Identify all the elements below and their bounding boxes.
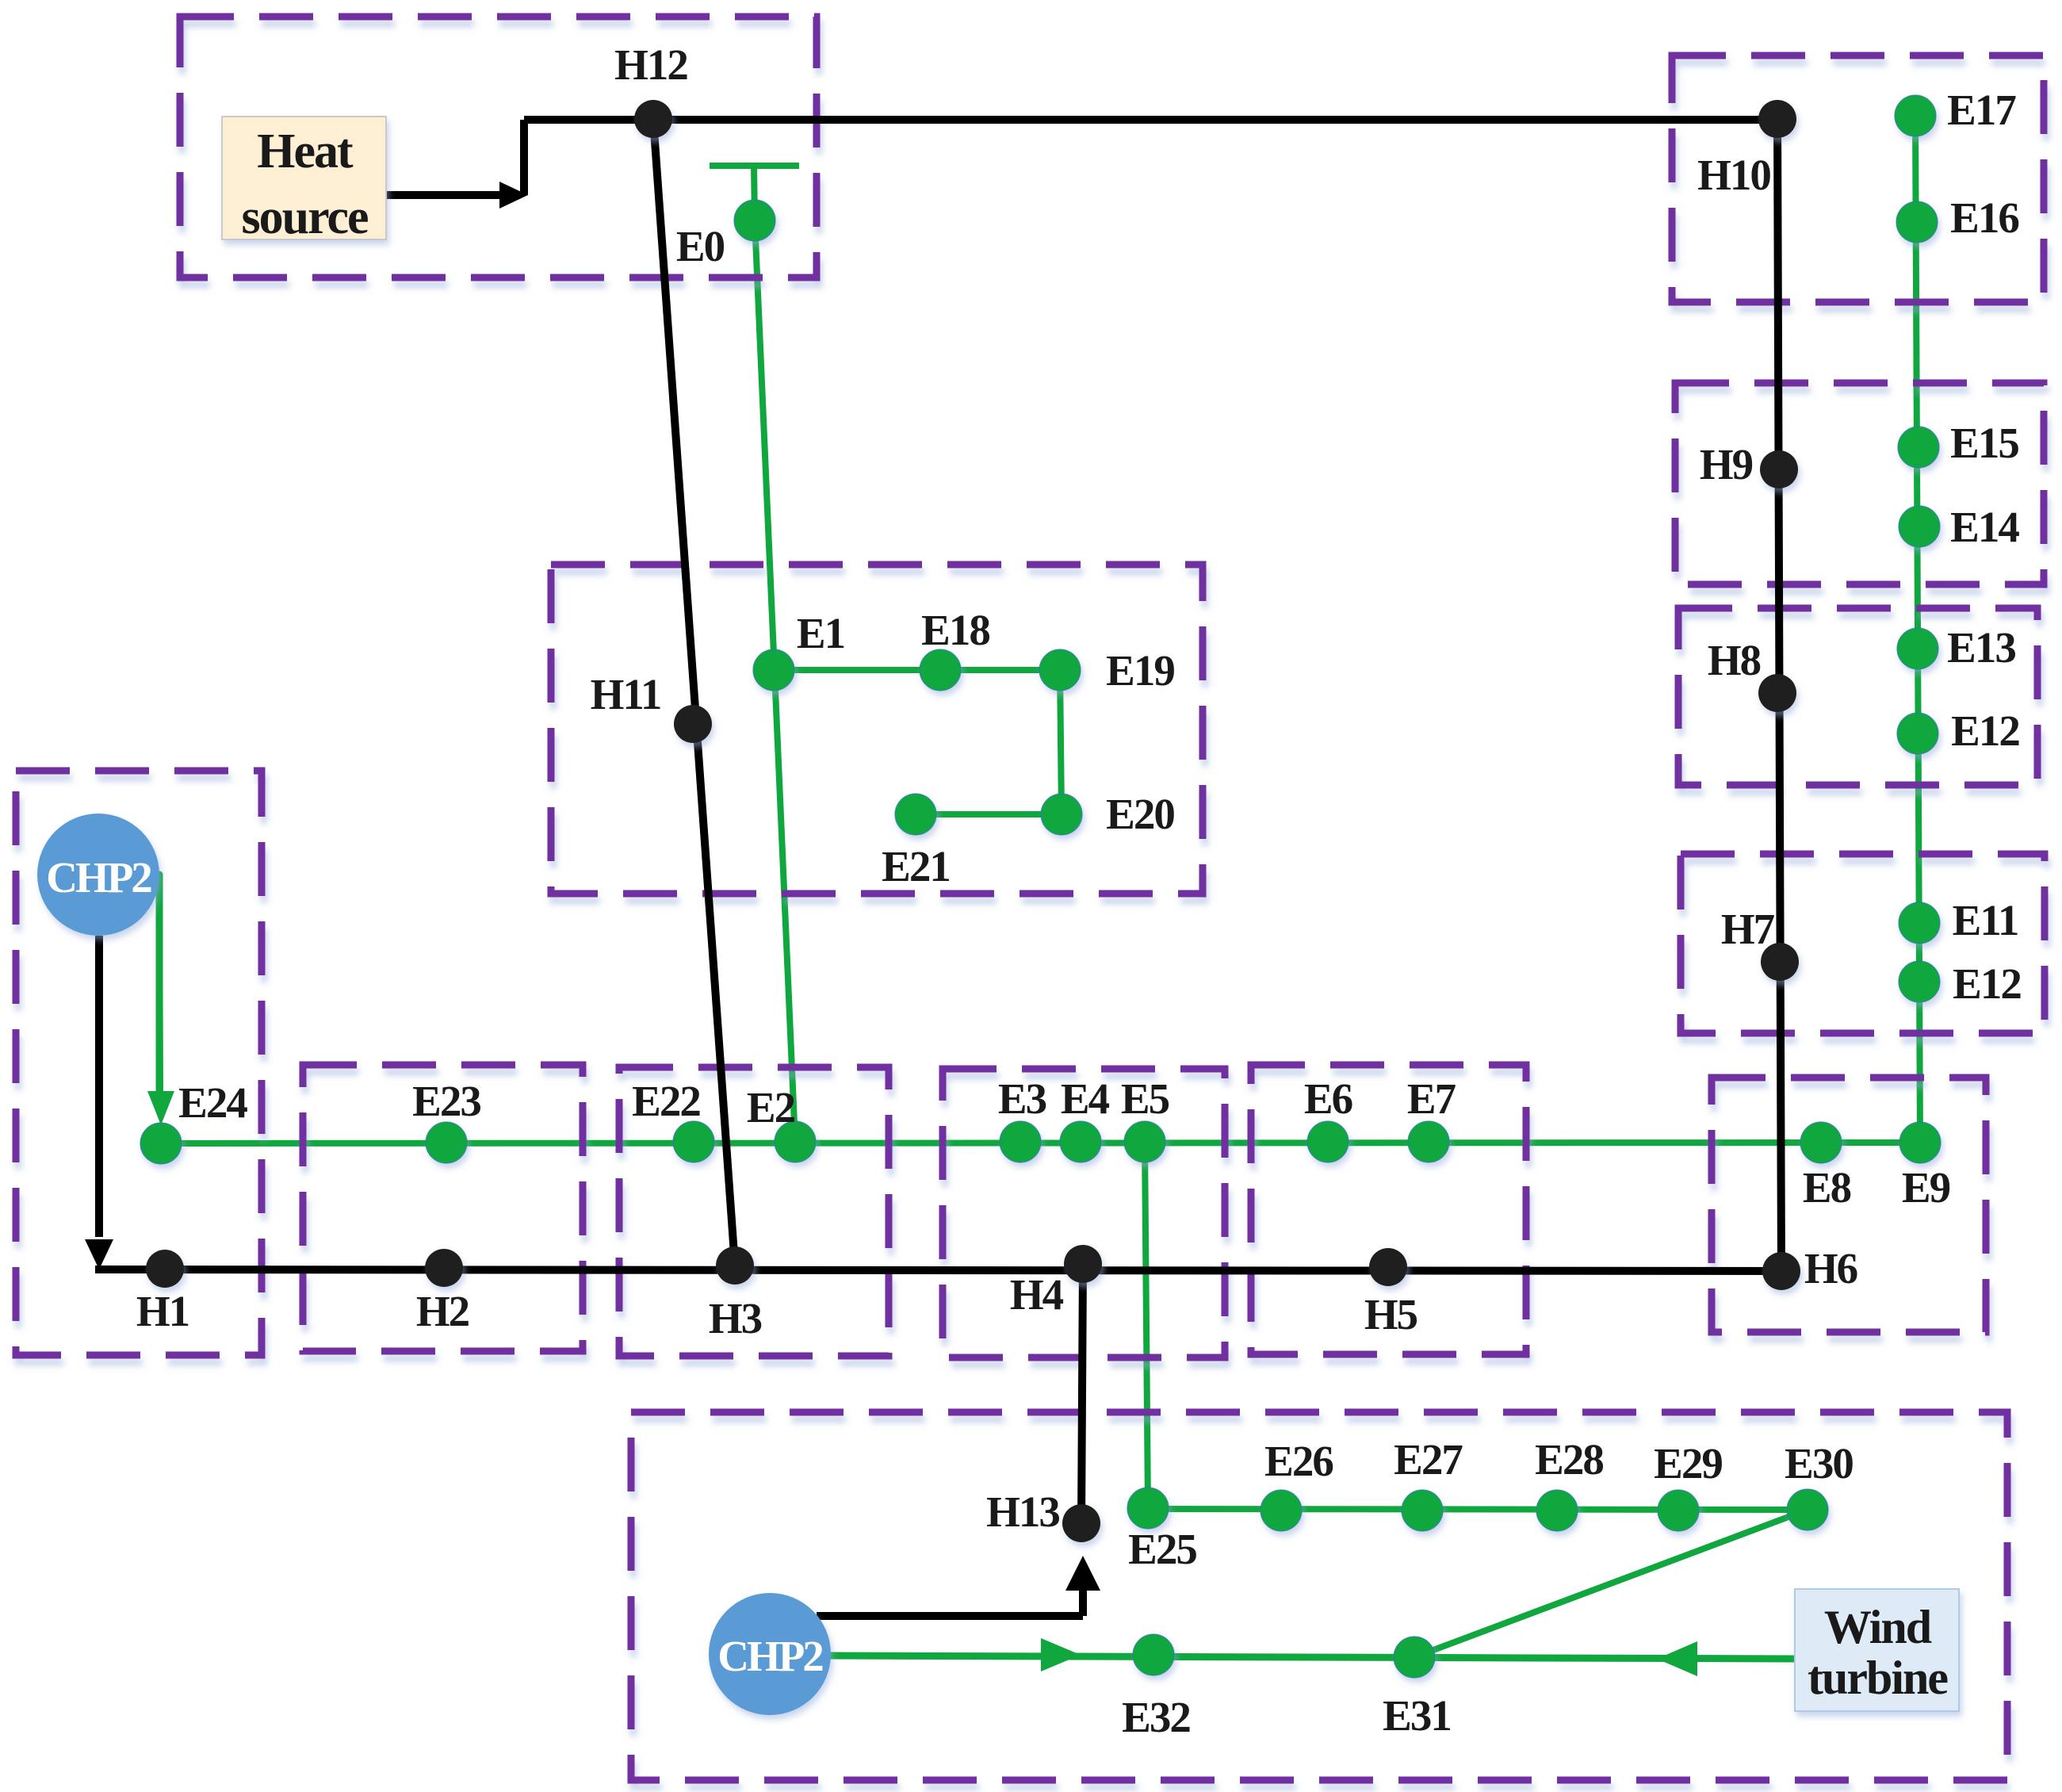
svg-text:E25: E25: [1128, 1525, 1196, 1573]
svg-text:E13: E13: [1947, 623, 2015, 672]
svg-text:E3: E3: [998, 1074, 1046, 1123]
svg-text:E7: E7: [1407, 1074, 1456, 1123]
svg-text:E12: E12: [1951, 706, 2019, 755]
svg-text:H11: H11: [591, 670, 661, 718]
svg-text:E17: E17: [1947, 86, 2016, 134]
svg-text:E6: E6: [1304, 1074, 1352, 1123]
svg-text:E22: E22: [632, 1077, 700, 1125]
svg-text:H12: H12: [614, 40, 687, 89]
svg-text:E12: E12: [1953, 959, 2021, 1008]
svg-text:H1: H1: [136, 1287, 189, 1335]
svg-text:E19: E19: [1106, 646, 1174, 695]
svg-text:E8: E8: [1803, 1163, 1851, 1212]
svg-text:Wind: Wind: [1824, 1601, 1932, 1653]
svg-text:E26: E26: [1264, 1437, 1333, 1485]
svg-text:H8: H8: [1708, 636, 1761, 684]
svg-text:E20: E20: [1106, 790, 1174, 838]
svg-text:H3: H3: [709, 1294, 762, 1342]
svg-text:E28: E28: [1535, 1435, 1603, 1484]
svg-text:E2: E2: [747, 1083, 795, 1131]
svg-text:H4: H4: [1010, 1270, 1064, 1319]
svg-text:E24: E24: [178, 1078, 247, 1127]
svg-text:E4: E4: [1061, 1074, 1110, 1123]
svg-text:E0: E0: [676, 222, 725, 270]
svg-text:E21: E21: [882, 842, 950, 890]
svg-text:CHP2: CHP2: [717, 1632, 823, 1680]
svg-text:H13: H13: [986, 1488, 1059, 1536]
svg-text:E15: E15: [1950, 419, 2018, 467]
svg-text:E16: E16: [1950, 193, 2018, 242]
svg-text:E14: E14: [1950, 503, 2019, 551]
svg-text:Heat: Heat: [257, 124, 354, 178]
svg-text:E30: E30: [1785, 1439, 1853, 1488]
svg-text:E1: E1: [797, 609, 844, 657]
svg-text:E11: E11: [1953, 896, 2018, 944]
svg-text:E29: E29: [1654, 1439, 1722, 1488]
svg-text:E31: E31: [1383, 1691, 1451, 1740]
svg-text:CHP2: CHP2: [46, 853, 151, 902]
svg-text:E18: E18: [921, 606, 989, 654]
svg-text:E5: E5: [1121, 1074, 1169, 1123]
svg-text:E9: E9: [1902, 1163, 1950, 1212]
svg-text:turbine: turbine: [1808, 1652, 1948, 1704]
svg-text:E23: E23: [412, 1077, 480, 1125]
svg-text:E32: E32: [1122, 1693, 1190, 1741]
svg-text:H6: H6: [1804, 1244, 1857, 1292]
svg-text:H7: H7: [1721, 905, 1775, 953]
svg-text:E27: E27: [1394, 1435, 1463, 1484]
svg-text:H5: H5: [1364, 1290, 1417, 1338]
svg-text:H10: H10: [1697, 151, 1770, 199]
svg-text:H2: H2: [416, 1287, 469, 1335]
svg-text:H9: H9: [1700, 440, 1753, 488]
svg-text:source: source: [241, 190, 368, 244]
